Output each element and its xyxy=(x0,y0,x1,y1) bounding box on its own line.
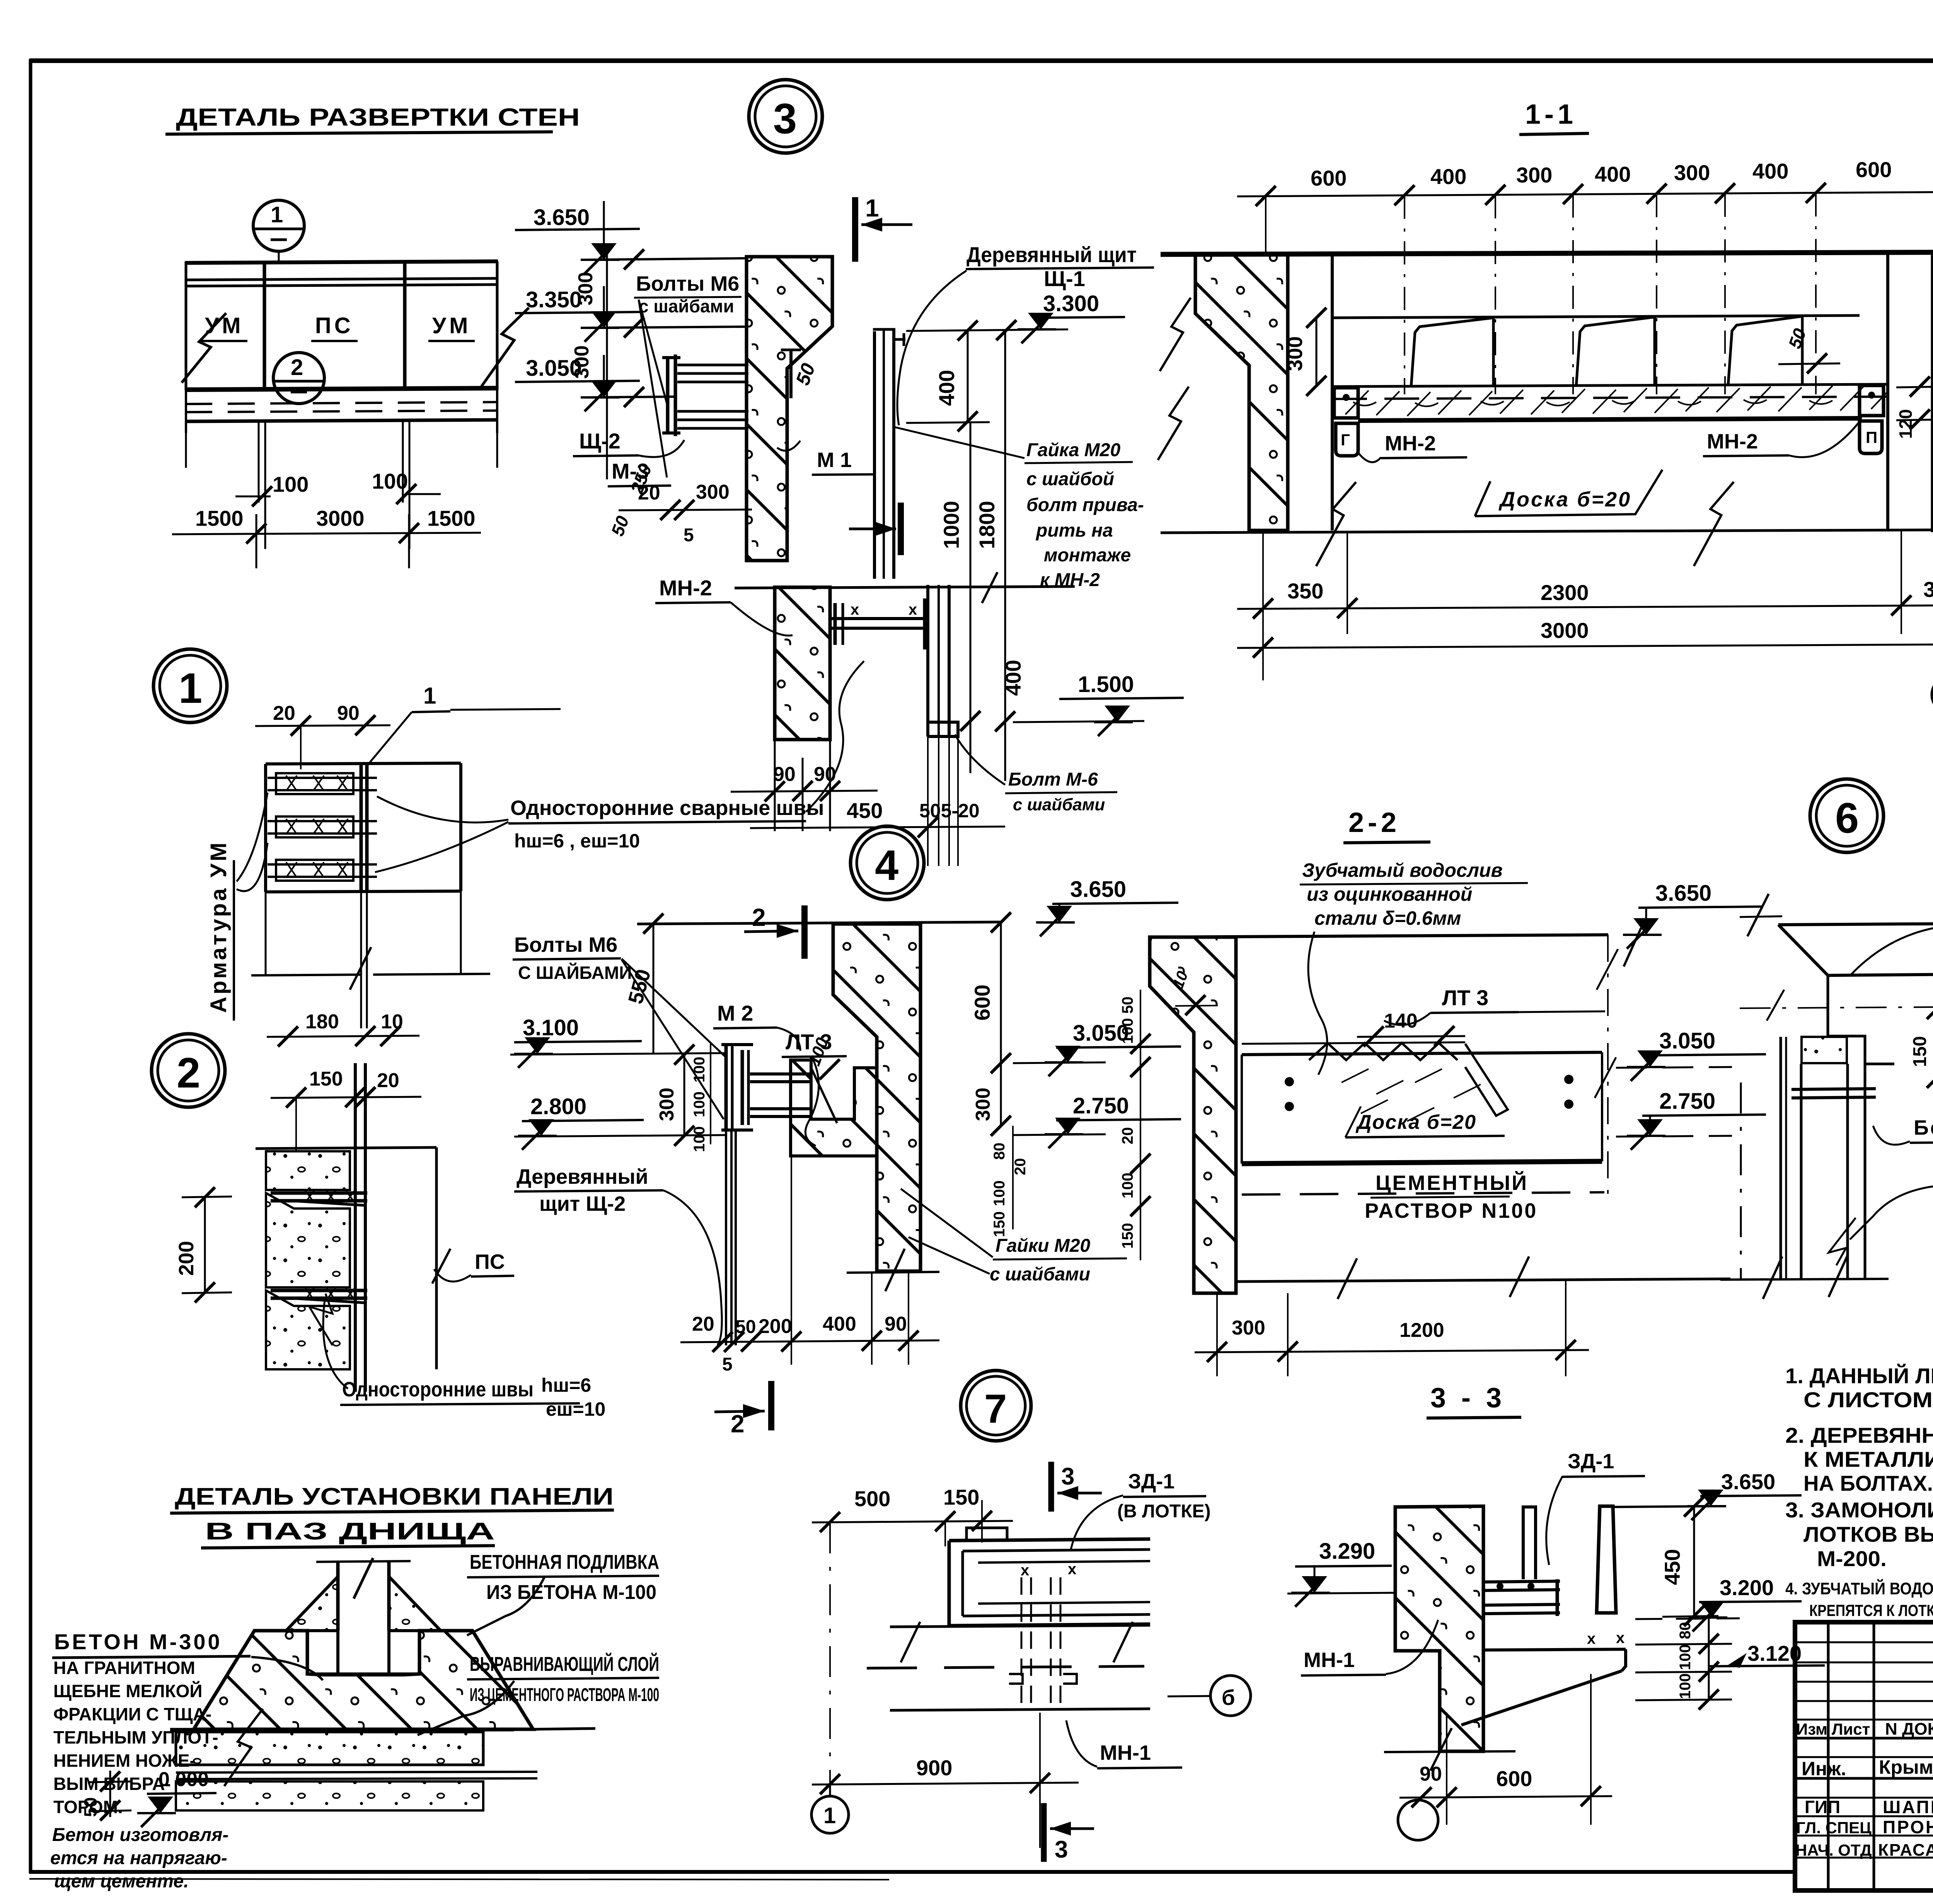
svg-text:2.800: 2.800 xyxy=(530,1094,586,1119)
svg-text:3. ЗАМОНОЛИЧИВАНИЕ ТОРЦОВ: 3. ЗАМОНОЛИЧИВАНИЕ ТОРЦОВ xyxy=(1785,1498,1933,1522)
svg-text:2: 2 xyxy=(752,903,766,931)
bracket beam xyxy=(1792,1089,1876,1089)
leaders xyxy=(622,959,726,1057)
svg-text:3: 3 xyxy=(1055,1836,1068,1863)
panel top cut xyxy=(316,1561,411,1562)
left edge vertical xyxy=(185,261,188,390)
vertical plank of lower fragment xyxy=(926,585,929,736)
svg-text:Зубчатый водослив: Зубчатый водослив xyxy=(1302,859,1503,881)
svg-text:x: x xyxy=(1587,1630,1595,1647)
outer frame of stamp xyxy=(1795,1622,1933,1890)
svg-text:5: 5 xyxy=(722,1354,733,1375)
svg-text:болт прива-: болт прива- xyxy=(1026,495,1144,515)
svg-text:900: 900 xyxy=(916,1756,952,1780)
svg-text:300: 300 xyxy=(696,481,730,503)
left panel face lines xyxy=(1331,254,1334,530)
shield plank xyxy=(1522,1506,1525,1579)
svg-text:ВЫРАВНИВАЮЩИЙ СЛОЙ: ВЫРАВНИВАЮЩИЙ СЛОЙ xyxy=(470,1653,659,1676)
svg-text:400: 400 xyxy=(1430,164,1466,189)
centerline right xyxy=(1607,935,1609,1198)
dashed mid line of strip xyxy=(1332,397,1888,399)
bottom chord xyxy=(185,388,498,390)
svg-text:УМ: УМ xyxy=(432,313,471,338)
svg-text:стали δ=0.6мм: стали δ=0.6мм xyxy=(1314,907,1461,929)
svg-text:ВЫМ ВИБРА-: ВЫМ ВИБРА- xyxy=(53,1774,171,1794)
svg-text:200: 200 xyxy=(175,1241,198,1276)
axis circle 1 xyxy=(811,1796,849,1833)
level line from shield top xyxy=(906,329,1068,331)
svg-text:ГИП: ГИП xyxy=(1805,1797,1840,1817)
svg-text:180: 180 xyxy=(305,1011,339,1033)
leader from гайка to bolt on plank xyxy=(895,427,1024,458)
svg-text:ИЗ БЕТОНА М-100: ИЗ БЕТОНА М-100 xyxy=(486,1581,656,1604)
svg-text:1: 1 xyxy=(423,683,436,709)
svg-text:1500: 1500 xyxy=(427,506,476,530)
svg-text:80: 80 xyxy=(1677,1622,1694,1640)
svg-text:Доска б=20: Доска б=20 xyxy=(1498,488,1631,511)
floor line xyxy=(1332,384,1888,387)
svg-text:Односторонние швы: Односторонние швы xyxy=(342,1378,534,1401)
bolt М6 lower xyxy=(677,410,748,413)
top level line xyxy=(1613,1506,1717,1507)
svg-text:300: 300 xyxy=(656,1088,678,1121)
svg-text:Болты М6: Болты М6 xyxy=(636,272,739,295)
svg-text:КРАСАВИН: КРАСАВИН xyxy=(1878,1841,1933,1860)
break mark right xyxy=(481,308,529,387)
svg-text:Крымский: Крымский xyxy=(1879,1756,1933,1778)
svg-text:100: 100 xyxy=(991,1180,1008,1206)
svg-text:ПРОНИН: ПРОНИН xyxy=(1883,1817,1933,1837)
svg-text:2: 2 xyxy=(291,355,303,380)
rebar group 1 xyxy=(276,773,353,794)
svg-text:hш=6: hш=6 xyxy=(541,1374,591,1396)
svg-text:БЕТОННАЯ ПОДЛИВКА: БЕТОННАЯ ПОДЛИВКА xyxy=(470,1551,659,1573)
svg-text:20: 20 xyxy=(377,1069,399,1092)
svg-text:МН-1: МН-1 xyxy=(1304,1648,1355,1672)
svg-text:с шайбами: с шайбами xyxy=(990,1264,1090,1285)
svg-text:20: 20 xyxy=(1012,1158,1029,1176)
svg-text:3.650: 3.650 xyxy=(1070,877,1126,902)
leader from болт to plank bottom xyxy=(955,735,1005,785)
svg-text:100: 100 xyxy=(1677,1673,1694,1699)
right edge vertical xyxy=(496,261,499,390)
svg-text:350: 350 xyxy=(1287,579,1323,603)
centerline dash-dot xyxy=(1740,1007,1933,1008)
section mark 1 (top) xyxy=(852,197,858,262)
top slab line xyxy=(1161,252,1933,254)
bottom slab line of board xyxy=(1358,418,1862,421)
svg-text:350: 350 xyxy=(1923,577,1933,602)
svg-text:3.650: 3.650 xyxy=(1721,1469,1775,1494)
svg-text:ЗД-1: ЗД-1 xyxy=(1568,1450,1614,1473)
svg-text:4: 4 xyxy=(875,842,898,889)
weir plate 2 xyxy=(1576,317,1655,387)
svg-text:щит Щ-2: щит Щ-2 xyxy=(539,1192,626,1215)
M2 bracket plates xyxy=(724,1044,728,1131)
svg-text:3.300: 3.300 xyxy=(1043,291,1099,316)
svg-text:3: 3 xyxy=(773,95,797,143)
lower verticals (lot walls) xyxy=(1780,1037,1782,1278)
svg-text:ПС: ПС xyxy=(475,1250,505,1273)
svg-text:Бетон М-100: Бетон М-100 xyxy=(1914,1116,1933,1139)
svg-text:100: 100 xyxy=(1677,1644,1694,1670)
rebar group 2 xyxy=(276,816,353,837)
svg-text:400: 400 xyxy=(1595,162,1631,186)
break on top line xyxy=(1624,928,1641,966)
node circle 4 xyxy=(851,826,924,900)
svg-text:300: 300 xyxy=(1232,1317,1265,1339)
svg-text:КРЕПЯТСЯ К ЛОТКУ ШАЙБАМИ ПОЗ: КРЕПЯТСЯ К ЛОТКУ ШАЙБАМИ ПОЗ 9 МАРКИ М 2 xyxy=(1809,1601,1933,1619)
dashed line lower xyxy=(1242,1192,1604,1195)
svg-text:90: 90 xyxy=(1420,1763,1442,1785)
long vertical dim lines 1000/1800 xyxy=(970,422,972,773)
dim 120 rotated right xyxy=(1919,387,1920,419)
svg-text:50: 50 xyxy=(735,1317,756,1337)
panel joint left xyxy=(263,263,266,390)
svg-text:90: 90 xyxy=(337,702,360,724)
section mark 2 (top) xyxy=(801,905,808,959)
ЗД-1 vertical board xyxy=(1597,1506,1616,1613)
svg-text:3.200: 3.200 xyxy=(1720,1575,1774,1600)
bottom line with breaks xyxy=(1720,1279,1889,1280)
svg-text:20: 20 xyxy=(273,702,295,724)
svg-text:x: x xyxy=(1616,1630,1624,1647)
joint detail 1 box xyxy=(266,763,461,764)
svg-text:Гайка М20: Гайка М20 xyxy=(1026,440,1120,460)
vertical shield plank Щ-1 xyxy=(873,331,876,579)
concrete corbel block (hatched) xyxy=(747,257,832,561)
concrete wall (hatched) xyxy=(833,924,920,1271)
anchor plate M1 inside xyxy=(789,350,793,398)
inner horizontal lines xyxy=(978,1561,1150,1563)
svg-text:300: 300 xyxy=(972,1088,994,1121)
svg-text:ФРАКЦИИ С ТЩА-: ФРАКЦИИ С ТЩА- xyxy=(53,1704,211,1724)
svg-text:200: 200 xyxy=(759,1315,792,1338)
svg-text:80: 80 xyxy=(991,1143,1008,1160)
small dims column right of wall xyxy=(1012,1126,1014,1229)
bolt plate (left washer plates) xyxy=(666,358,670,433)
wood texture inside xyxy=(1342,1069,1481,1121)
leader from бетон м300 xyxy=(251,1657,323,1680)
top line of wall fragment xyxy=(735,586,1075,588)
frame top line xyxy=(29,58,1933,63)
МН-2 anchor H bracket xyxy=(830,617,928,620)
svg-text:1: 1 xyxy=(179,665,202,712)
svg-text:1: 1 xyxy=(271,202,283,227)
lower concrete piece xyxy=(266,1290,350,1369)
svg-text:150: 150 xyxy=(1910,1036,1930,1067)
svg-text:3.290: 3.290 xyxy=(1319,1539,1375,1564)
break marks in screed xyxy=(224,1709,263,1786)
svg-text:500: 500 xyxy=(854,1486,890,1511)
break marks xyxy=(901,1622,920,1662)
upper thin line xyxy=(1242,1042,1465,1044)
svg-text:Щ-1: Щ-1 xyxy=(1044,266,1085,291)
svg-text:1000: 1000 xyxy=(939,501,963,549)
svg-text:ЛТ 3: ЛТ 3 xyxy=(1442,985,1488,1010)
left wall hatched xyxy=(1150,937,1236,1293)
section mark 2 (bottom) xyxy=(768,1381,774,1430)
zigzag weir xyxy=(1309,1043,1457,1060)
shield plank verticals below bracket xyxy=(725,1131,727,1345)
svg-text:ТОРОМ.: ТОРОМ. xyxy=(53,1797,123,1817)
wire leader xyxy=(731,602,793,636)
wire leader from circle 1 xyxy=(278,251,280,261)
svg-text:монтаже: монтаже xyxy=(1044,545,1131,566)
leader wires from label to rebar xyxy=(237,793,268,881)
dim 300 vertical left xyxy=(1316,317,1318,387)
svg-text:Бетон изготовля-: Бетон изготовля- xyxy=(52,1825,228,1845)
svg-text:100: 100 xyxy=(691,1091,708,1117)
top shelf lines xyxy=(254,1629,307,1633)
svg-text:1: 1 xyxy=(865,194,879,222)
dim 200 vertical xyxy=(204,1197,206,1293)
section mark 1 (bottom) xyxy=(898,503,904,555)
leader xyxy=(467,1577,544,1635)
svg-text:x: x xyxy=(1068,1561,1076,1578)
leader wire down xyxy=(1308,932,1327,1075)
node circle 1 xyxy=(253,200,304,251)
svg-text:N ДОКУМ: N ДОКУМ xyxy=(1885,1720,1933,1739)
svg-text:3.120: 3.120 xyxy=(1747,1641,1802,1665)
svg-text:НА ГРАНИТНОМ: НА ГРАНИТНОМ xyxy=(53,1658,195,1678)
svg-text:400: 400 xyxy=(1752,159,1788,183)
bottom slab line xyxy=(890,1709,1150,1710)
svg-text:20: 20 xyxy=(1119,1127,1136,1145)
leader wires xyxy=(377,796,508,823)
node circle 1 xyxy=(153,649,227,723)
svg-text:М 1: М 1 xyxy=(817,448,852,472)
svg-text:Односторонние сварные швы: Односторонние сварные швы xyxy=(510,796,824,820)
svg-text:Лист: Лист xyxy=(1832,1720,1870,1738)
node circle б below xyxy=(1932,676,1933,713)
lot channel ЛТ3 (hatched) xyxy=(791,1060,877,1156)
right panel face xyxy=(435,1147,438,1369)
svg-text:3000: 3000 xyxy=(1541,618,1589,643)
svg-text:600: 600 xyxy=(1856,157,1892,182)
svg-text:x: x xyxy=(1021,1562,1029,1579)
weir plate 1 xyxy=(1411,318,1493,387)
bottom empty circle xyxy=(1398,1800,1438,1840)
svg-text:ЗД-1: ЗД-1 xyxy=(1128,1470,1174,1493)
svg-text:из оцинкованной: из оцинкованной xyxy=(1307,883,1472,905)
node circle 3 xyxy=(749,80,822,153)
svg-text:с шайбой: с шайбой xyxy=(1026,469,1114,489)
svg-text:Доска б=20: Доска б=20 xyxy=(1355,1111,1476,1134)
right side dims xyxy=(1000,922,1002,1126)
svg-text:100: 100 xyxy=(1119,1173,1136,1198)
svg-text:450: 450 xyxy=(1660,1549,1684,1585)
break zigzag on panel xyxy=(354,1558,373,1599)
break on top line xyxy=(982,572,997,603)
leader xyxy=(418,1681,514,1735)
svg-text:Щ-2: Щ-2 xyxy=(579,429,620,453)
svg-text:С ЛИСТОМ КЖ-1.: С ЛИСТОМ КЖ-1. xyxy=(1803,1388,1933,1412)
svg-text:с шайбами: с шайбами xyxy=(1013,795,1105,814)
break marks on bottom line xyxy=(1316,478,1356,570)
svg-text:300: 300 xyxy=(1674,160,1710,185)
svg-text:С ШАЙБАМИ: С ШАЙБАМИ xyxy=(518,963,632,983)
sloped plate right of zigzag xyxy=(1465,1044,1508,1116)
right dims xyxy=(1693,1507,1695,1616)
bolt М6 upper through wall xyxy=(677,364,748,366)
svg-text:3.350: 3.350 xyxy=(526,287,582,312)
svg-text:120: 120 xyxy=(1895,409,1916,439)
top line xyxy=(256,1147,436,1149)
left part verticals xyxy=(1827,1622,1830,1890)
svg-text:Деревянный щит: Деревянный щит xyxy=(966,242,1137,267)
svg-text:П: П xyxy=(1866,428,1877,447)
bolts to lot xyxy=(750,1072,811,1076)
svg-text:еш=10: еш=10 xyxy=(546,1398,605,1420)
svg-text:100 50: 100 50 xyxy=(1119,997,1136,1044)
step with small concrete block xyxy=(1828,975,1894,1064)
svg-text:100: 100 xyxy=(691,1057,708,1082)
svg-text:БЕТОН М-300: БЕТОН М-300 xyxy=(54,1630,222,1654)
svg-text:1. ДАННЫЙ ЛИСТ СМ. СОВМЕСТНО: 1. ДАННЫЙ ЛИСТ СМ. СОВМЕСТНО xyxy=(1785,1364,1933,1388)
svg-text:7: 7 xyxy=(984,1386,1007,1432)
middle concrete piece xyxy=(266,1193,350,1287)
seam plate 2 xyxy=(271,1289,367,1292)
svg-text:М-3: М-3 xyxy=(612,459,649,483)
svg-text:ЦЕМЕНТНЫЙ: ЦЕМЕНТНЫЙ xyxy=(1376,1171,1528,1195)
level line 3.650 xyxy=(586,258,747,260)
svg-text:1800: 1800 xyxy=(975,501,999,549)
svg-text:100: 100 xyxy=(691,1126,708,1152)
extension centerlines down xyxy=(1265,196,1267,255)
svg-text:К МЕТАЛЛИЧЕСКИМ МАРКАМ: К МЕТАЛЛИЧЕСКИМ МАРКАМ xyxy=(1803,1447,1933,1471)
break mark left xyxy=(182,313,226,383)
svg-text:20: 20 xyxy=(692,1313,714,1335)
svg-text:1.500: 1.500 xyxy=(1078,672,1134,697)
left small dims column xyxy=(1140,990,1141,1260)
svg-text:150: 150 xyxy=(1119,1223,1136,1249)
frame left line xyxy=(29,59,32,1873)
node circle б xyxy=(1210,1676,1251,1716)
wall bottom break xyxy=(847,1272,939,1273)
svg-text:НА БОЛТАХ.: НА БОЛТАХ. xyxy=(1803,1471,1933,1495)
svg-text:3.100: 3.100 xyxy=(523,1015,579,1040)
leader wires to seams xyxy=(323,1300,348,1389)
svg-text:1-1: 1-1 xyxy=(1525,99,1577,130)
svg-text:400: 400 xyxy=(823,1313,856,1335)
dim 300 and 100s rotated xyxy=(684,1054,685,1137)
svg-text:2: 2 xyxy=(177,1049,200,1097)
svg-text:2. ДЕРЕВЯННЫЕ ЩИТЫ КРЕПИТЬ: 2. ДЕРЕВЯННЫЕ ЩИТЫ КРЕПИТЬ xyxy=(1785,1423,1933,1447)
svg-text:300: 300 xyxy=(571,345,593,379)
svg-text:450: 450 xyxy=(847,798,883,823)
left part horizontals xyxy=(1795,1641,1933,1643)
svg-text:Гайки М20: Гайки М20 xyxy=(995,1236,1091,1256)
right panel column xyxy=(1886,254,1889,530)
base strip with dashed lines xyxy=(185,402,498,404)
svg-text:НЕНИЕМ НОЖЕ-: НЕНИЕМ НОЖЕ- xyxy=(53,1751,196,1771)
extension lines under joints xyxy=(258,421,260,503)
svg-text:600: 600 xyxy=(970,985,994,1021)
svg-text:ГЛ. СПЕЦ: ГЛ. СПЕЦ xyxy=(1796,1819,1872,1837)
svg-text:ется на напрягаю-: ется на напрягаю- xyxy=(50,1848,227,1868)
svg-text:ШАПИРО: ШАПИРО xyxy=(1883,1797,1933,1817)
svg-text:300: 300 xyxy=(1284,336,1307,371)
wall hatched xyxy=(1395,1506,1483,1751)
svg-text:300: 300 xyxy=(1516,163,1552,187)
svg-text:3: 3 xyxy=(1061,1463,1074,1490)
svg-text:Болт М-6: Болт М-6 xyxy=(1008,769,1098,790)
svg-text:ПС: ПС xyxy=(315,313,354,338)
shelf extension lines left/right xyxy=(170,1728,194,1731)
dim 550 rotated xyxy=(653,924,655,1054)
panel verticals xyxy=(336,1562,340,1631)
svg-text:400: 400 xyxy=(934,370,959,406)
bolt dots xyxy=(1285,1077,1294,1086)
svg-text:2-2: 2-2 xyxy=(1348,807,1400,838)
bottom line xyxy=(1161,530,1933,533)
break marks left of wall xyxy=(1160,298,1191,371)
svg-text:Арматура УМ: Арматура УМ xyxy=(206,840,231,1013)
vertical bolt dashed lines xyxy=(1021,1577,1023,1713)
svg-text:100: 100 xyxy=(273,472,309,496)
node circle 2 xyxy=(273,353,324,404)
leader wire to plank xyxy=(897,271,966,425)
svg-text:400: 400 xyxy=(1001,660,1025,696)
svg-text:НАЧ. ОТД: НАЧ. ОТД xyxy=(1795,1841,1872,1859)
rebar group 3 xyxy=(276,860,353,881)
svg-text:МН-2: МН-2 xyxy=(659,576,712,600)
svg-text:600: 600 xyxy=(1311,166,1347,190)
right wedge xyxy=(389,1577,441,1631)
svg-text:3.650: 3.650 xyxy=(1655,881,1711,906)
section mark 3 (bottom) xyxy=(1041,1803,1047,1862)
frame bottom line left part xyxy=(29,1870,1794,1874)
svg-text:3.050: 3.050 xyxy=(1659,1028,1715,1053)
screed strip xyxy=(170,1730,514,1731)
upper inner line xyxy=(1332,315,1860,318)
bolt bracket at plank bottom xyxy=(928,722,958,736)
svg-text:hш=6 , еш=10: hш=6 , еш=10 xyxy=(514,830,640,852)
svg-text:2300: 2300 xyxy=(1541,580,1589,605)
svg-text:3 - 3: 3 - 3 xyxy=(1430,1382,1505,1413)
svg-text:2.750: 2.750 xyxy=(1073,1093,1129,1118)
svg-text:(В ЛОТКЕ): (В ЛОТКЕ) xyxy=(1117,1501,1211,1522)
wire leaders to bolts xyxy=(639,300,668,408)
joint vertical lines xyxy=(360,764,363,891)
small cap rect top xyxy=(966,1528,1007,1541)
groove walls xyxy=(307,1631,323,1674)
seam plate 1 xyxy=(271,1191,367,1195)
svg-text:ДЕТАЛЬ РАЗВЕРТКИ СТЕН: ДЕТАЛЬ РАЗВЕРТКИ СТЕН xyxy=(176,103,580,131)
bolt anchor symbols xyxy=(1009,1674,1077,1684)
svg-text:Г: Г xyxy=(1341,431,1350,449)
top line to centerline xyxy=(1150,935,1608,937)
МН-2 bracket right xyxy=(1860,385,1884,416)
svg-text:3000: 3000 xyxy=(316,506,365,530)
top line of detail xyxy=(637,922,1001,924)
leaders xyxy=(901,1189,993,1257)
verticals below joint xyxy=(265,892,267,974)
svg-text:б: б xyxy=(1222,1685,1235,1710)
wall fragment hatched xyxy=(775,587,830,740)
floor line with break xyxy=(251,975,361,975)
svg-text:Болты М6: Болты М6 xyxy=(514,933,617,956)
svg-text:Деревянный: Деревянный xyxy=(516,1165,648,1188)
thin layer lines xyxy=(176,1772,537,1773)
svg-text:ЛОТКОВ ВЫПОЛНЯТЬ БЕТОНОМ: ЛОТКОВ ВЫПОЛНЯТЬ БЕТОНОМ xyxy=(1803,1522,1933,1546)
svg-text:2.750: 2.750 xyxy=(1659,1089,1715,1114)
node circle 2 xyxy=(152,1034,225,1107)
break mark top left xyxy=(1747,894,1769,936)
wall bottom break xyxy=(1384,1751,1515,1752)
vertical dim 300/300 xyxy=(606,247,608,479)
